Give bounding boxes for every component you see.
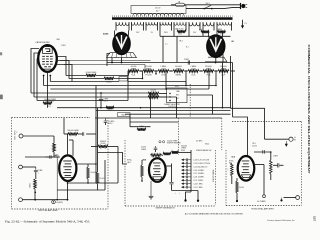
svg-text:SWEEP RANGE: SWEEP RANGE xyxy=(212,169,215,182)
wire coil drop x203 xyxy=(202,31,204,37)
svg-text:25,000: 25,000 xyxy=(100,143,105,145)
wire bus y97 xyxy=(34,96,177,98)
resistor R20 xyxy=(98,145,108,148)
wire bus y89 xyxy=(50,88,209,90)
wire to terminals xyxy=(284,197,296,199)
svg-text:COMB: COMB xyxy=(38,170,43,172)
svg-text:150,000: 150,000 xyxy=(150,90,156,92)
wire crt junction drops xyxy=(43,75,45,77)
wire CRT pin right 1 xyxy=(57,57,66,76)
transformer T1 secondary winding S5 xyxy=(174,22,186,25)
resistor R32 xyxy=(163,152,171,155)
wire bus y118 xyxy=(95,117,222,119)
fuse F1 xyxy=(176,3,185,6)
transformer T1 secondary winding S3 xyxy=(146,22,158,25)
wire sweep top xyxy=(162,154,164,156)
svg-text:R-1: R-1 xyxy=(186,47,189,49)
wire vert x232.5 xyxy=(232,63,234,118)
transformer T1 secondary winding S4 xyxy=(160,22,172,25)
resistor R25 bleeder xyxy=(188,70,199,73)
wire CRT pin left 1 xyxy=(31,49,39,94)
svg-text:COMMERCIAL OSCILLOSCOPES AND R: COMMERCIAL OSCILLOSCOPES AND RELATED EQU… xyxy=(307,45,311,174)
terminal J4 horiz input xyxy=(289,137,293,141)
resistor R2 heater xyxy=(201,30,209,33)
capacitor C17 range xyxy=(185,172,187,175)
capacitor C11 xyxy=(277,163,279,167)
wire bottom link xyxy=(172,190,199,192)
resistor R19 xyxy=(68,133,78,136)
svg-text:H. PLATE: H. PLATE xyxy=(257,200,266,203)
wire CRT pin right 3 xyxy=(56,65,72,82)
wire CRT pin right 2 xyxy=(56,61,69,79)
dashed divider x190.2 xyxy=(189,84,191,117)
wire ladder ground xyxy=(186,192,192,200)
capacitor C21 range xyxy=(185,186,187,189)
svg-text:R-26: R-26 xyxy=(207,74,211,76)
wire line cord lower xyxy=(186,7,241,8)
svg-text:+ 4 MFD: + 4 MFD xyxy=(108,121,115,123)
svg-text:C-15 450-2850 CY.: C-15 450-2850 CY. xyxy=(193,166,208,168)
label web xyxy=(118,113,131,117)
wire bus y110.5 xyxy=(96,110,231,112)
svg-text:6AE5: 6AE5 xyxy=(54,154,60,157)
small circle jack b xyxy=(163,141,165,143)
svg-text:OHMS: OHMS xyxy=(206,68,212,70)
svg-text:R-23: R-23 xyxy=(162,68,166,70)
wire pilot lamp lead xyxy=(242,20,244,26)
svg-text:R-21: R-21 xyxy=(132,74,136,76)
svg-text:ALL VOLTAGES MEASURED WITH AN: ALL VOLTAGES MEASURED WITH AN ELECTRONIC… xyxy=(185,212,244,215)
wire right link upper xyxy=(231,108,265,139)
dashed box sweep generator xyxy=(124,140,126,206)
svg-text:FOCUS: FOCUS xyxy=(145,74,152,76)
wire coil drop x160 xyxy=(159,31,161,37)
wire loop y190 xyxy=(57,189,105,191)
wire bleeder junction 0 xyxy=(139,70,143,72)
wire V4 screen feed xyxy=(72,140,74,156)
svg-text:HORIZONTAL AMPLIFIER: HORIZONTAL AMPLIFIER xyxy=(251,207,274,210)
svg-text:SYNC.: SYNC. xyxy=(127,160,133,162)
svg-text:20,000: 20,000 xyxy=(239,187,244,189)
terminal J7 xyxy=(296,196,300,200)
tube V4 6AE5 xyxy=(59,155,76,181)
wire loop vert x105 xyxy=(104,160,106,190)
resistor R12 xyxy=(104,77,114,80)
resistor R16a grid stopper xyxy=(53,143,56,152)
svg-text:C-18 .25 MFD.: C-18 .25 MFD. xyxy=(193,177,205,179)
wire row 81.5 xyxy=(50,81,119,83)
potentiometer R13 box xyxy=(119,77,128,81)
wire V1 to bus xyxy=(121,62,123,64)
transformer T1 secondary winding S6 xyxy=(189,22,200,26)
transformer T1 secondary winding S8 xyxy=(217,22,231,25)
svg-text:25,000 OHMS: 25,000 OHMS xyxy=(167,140,178,142)
dashed divider x221.8 xyxy=(221,118,223,150)
svg-text:R-25: R-25 xyxy=(192,68,196,70)
wire vert x163 xyxy=(162,36,164,62)
wire coil drop x217 xyxy=(216,31,218,37)
tube V6 electrodes xyxy=(242,160,250,163)
resistor R27 bleeder xyxy=(218,70,229,73)
dashed divider x178.5 xyxy=(178,118,180,155)
svg-text:INTENSITY: INTENSITY xyxy=(46,101,56,103)
ground sweep tube xyxy=(150,181,152,196)
svg-text:5U4G: 5U4G xyxy=(103,33,109,36)
wire tap 4 xyxy=(185,71,187,86)
svg-text:25,000: 25,000 xyxy=(100,178,105,180)
wire bleeder junction 5 xyxy=(214,70,218,72)
wire vert x150.5 xyxy=(150,93,152,118)
svg-text:2 MEG.: 2 MEG. xyxy=(30,182,32,188)
svg-text:C-14 70-450 CYCLES: C-14 70-450 CYCLES xyxy=(193,163,210,165)
svg-text:50,000: 50,000 xyxy=(91,172,96,174)
wire grid leak xyxy=(56,157,58,200)
svg-text:SWEEP SELECTOR: SWEEP SELECTOR xyxy=(164,104,180,106)
svg-text:EXT.: EXT. xyxy=(176,95,180,97)
resistor R35 xyxy=(270,160,273,174)
svg-text:SW-4: SW-4 xyxy=(122,115,126,117)
wire vert x128 xyxy=(127,71,129,101)
capacitor C12 xyxy=(262,150,264,154)
svg-text:SW-2: SW-2 xyxy=(175,86,179,88)
svg-text:VERT. INPUT: VERT. INPUT xyxy=(15,130,17,140)
dashed box vertical amplifier xyxy=(12,117,91,119)
wire row 75.5 xyxy=(66,75,86,77)
resistor R26 bleeder xyxy=(203,70,214,73)
edge speck 2 xyxy=(0,95,3,100)
svg-text:SWEEP: SWEEP xyxy=(100,141,106,143)
wire right link lower xyxy=(233,117,248,156)
svg-text:500,000 OHMS: 500,000 OHMS xyxy=(67,130,79,132)
wire bus y107.7 xyxy=(57,107,231,109)
wire V4 cathode xyxy=(67,181,69,200)
wire bleeder junction 3 xyxy=(184,70,188,72)
tube V5 884 xyxy=(149,158,166,182)
potentiometer R14 intensity xyxy=(43,102,52,105)
svg-text:6C5: 6C5 xyxy=(232,156,235,158)
svg-text:TR-1: TR-1 xyxy=(108,110,112,112)
svg-text:115 V.: 115 V. xyxy=(155,8,161,10)
svg-text:SWEEP VERNIER: SWEEP VERNIER xyxy=(167,142,181,144)
capacitor C9 top xyxy=(155,146,157,148)
wire grid bus y157 xyxy=(25,156,54,158)
capacitor C4 filter xyxy=(100,93,102,99)
svg-text:C-16 .01 MFD.: C-16 .01 MFD. xyxy=(193,170,205,172)
resistor R9 xyxy=(137,128,146,131)
tube V4 electrodes xyxy=(63,160,71,163)
svg-text:OHMS: OHMS xyxy=(146,68,152,70)
capacitor C20 range xyxy=(185,182,187,185)
svg-text:C-1: C-1 xyxy=(165,44,168,46)
svg-text:50,000: 50,000 xyxy=(141,147,146,149)
wire loop vert x118 xyxy=(117,147,119,184)
svg-text:SW-3: SW-3 xyxy=(181,150,185,152)
tube V6 6C5 xyxy=(238,156,255,181)
wire top right xyxy=(254,151,271,153)
resistor R11 xyxy=(86,74,96,77)
wire HV bus xyxy=(107,62,233,64)
wire row 78.5 xyxy=(69,78,104,80)
capacitor C7 input xyxy=(35,167,37,170)
wire bus y100.5 xyxy=(37,100,128,102)
svg-text:1 MEG: 1 MEG xyxy=(273,156,279,158)
capacitor C2 coupling xyxy=(187,60,189,64)
capacitor C19 range xyxy=(185,179,187,182)
svg-text:SW-1: SW-1 xyxy=(206,3,210,5)
wire CRT bundle a xyxy=(60,60,151,62)
switch SW1 sweep selector box xyxy=(167,88,187,103)
tube V5 electrodes xyxy=(153,162,161,165)
wire V1 leads xyxy=(114,31,116,36)
wire sync link xyxy=(98,153,128,165)
tube V1 socket xyxy=(107,53,137,58)
svg-text:557: 557 xyxy=(312,216,316,222)
wire bus y114.2 xyxy=(125,113,231,115)
svg-text:600 V.: 600 V. xyxy=(104,101,109,103)
svg-text:CONTROL: CONTROL xyxy=(168,106,176,108)
resistor R3 heater xyxy=(218,30,226,33)
wire vert x177 xyxy=(176,36,178,62)
wire CRT pin bottom xyxy=(47,72,49,101)
resistor R33 grid xyxy=(231,163,234,176)
terminal J3 xyxy=(19,198,23,202)
resistor R15 xyxy=(148,92,159,95)
rectifier tube V2 80 xyxy=(207,35,224,57)
potentiometer R17 2meg xyxy=(34,179,37,189)
resistor R31 xyxy=(151,154,162,157)
transformer T1 secondary winding S7 xyxy=(203,22,214,26)
resistor R1 heater xyxy=(177,30,186,33)
svg-text:C-17 .05 MFD.: C-17 .05 MFD. xyxy=(193,173,205,175)
rectifier tube V1 5U4G xyxy=(113,33,129,54)
resistor R34 cathode xyxy=(236,181,239,193)
svg-text:TR-3: TR-3 xyxy=(179,41,183,43)
svg-text:10 W.: 10 W. xyxy=(161,74,166,76)
wire vert x176.5 xyxy=(176,97,178,118)
plug P1 xyxy=(240,3,242,9)
wire bleeder junction 2 xyxy=(169,70,173,72)
wire V1 socket left xyxy=(107,54,110,63)
resistor R23 bleeder xyxy=(158,70,169,73)
wire anode drop xyxy=(171,164,173,183)
svg-text:OHMS: OHMS xyxy=(176,68,182,70)
capacitor C10 xyxy=(169,182,173,184)
terminal J6 xyxy=(280,199,282,201)
terminal J5 marker xyxy=(285,141,287,144)
switch SW1 line xyxy=(203,8,205,10)
svg-text:300,000: 300,000 xyxy=(181,145,187,147)
svg-text:4 MFD: 4 MFD xyxy=(104,98,110,100)
svg-text:0.1 MFD: 0.1 MFD xyxy=(196,140,203,142)
resistor R21 bleeder xyxy=(128,70,139,73)
wire line cord upper xyxy=(185,4,241,6)
wire V2 leads xyxy=(208,31,210,38)
terminal GND lug xyxy=(52,200,56,204)
svg-text:SW-4: SW-4 xyxy=(205,143,209,145)
dashed box horizontal amplifier xyxy=(225,150,227,206)
wire bleeder junction 4 xyxy=(199,70,203,72)
svg-text:OHMS: OHMS xyxy=(221,68,227,70)
wire V6 plate xyxy=(254,164,265,166)
edge speck 1 xyxy=(0,52,2,55)
svg-text:SWEEP GENERATOR: SWEEP GENERATOR xyxy=(155,206,175,209)
wire bus y85.5 xyxy=(44,85,216,87)
small circle jack a xyxy=(159,141,161,143)
wire vert x96 xyxy=(95,101,97,184)
wire CRT bundle b xyxy=(64,64,145,66)
transformer T1 secondary winding S2 xyxy=(132,22,144,25)
transformer T1 secondary winding S1 xyxy=(116,22,129,25)
resistor R24 bleeder xyxy=(173,70,184,73)
capacitor C8 xyxy=(82,132,84,136)
svg-text:2 MFD: 2 MFD xyxy=(184,59,190,61)
resistor R30 grid xyxy=(141,165,144,177)
resistor R28 divider xyxy=(106,106,114,109)
wire coil drop x189 xyxy=(188,31,190,37)
transformer T1 primary box xyxy=(131,6,186,14)
svg-text:1: 1 xyxy=(228,169,229,171)
svg-text:OHMS: OHMS xyxy=(131,68,137,70)
capacitor C14 range xyxy=(185,162,187,165)
svg-text:24,000 OHMS: 24,000 OHMS xyxy=(86,72,98,74)
capacitor C6 grid xyxy=(49,155,51,158)
resistor R16 xyxy=(148,96,159,99)
svg-text:INTEN.: INTEN. xyxy=(176,74,182,76)
wire bleeder row xyxy=(231,70,236,72)
wire tap 6 xyxy=(215,71,217,86)
svg-text:10 W.: 10 W. xyxy=(178,33,183,35)
wire bleeder junction 1 xyxy=(154,70,158,72)
wire coil drop x174 xyxy=(173,31,175,37)
wire sweep bus b xyxy=(130,126,151,128)
wire V6 cathode gnd xyxy=(236,197,238,200)
wire selector out xyxy=(187,94,213,96)
capacitor C16 range xyxy=(185,169,187,172)
svg-text:C-21 2 MFD.: C-21 2 MFD. xyxy=(193,187,203,189)
svg-text:450: 450 xyxy=(199,29,202,31)
svg-text:CATHODE RAY: CATHODE RAY xyxy=(35,41,50,44)
wire tap intensity xyxy=(155,71,157,74)
resistor R29 decoupling xyxy=(96,172,99,184)
wire sweep bus a xyxy=(130,121,179,123)
wire V4 grid feed xyxy=(67,134,69,155)
svg-text:R-25: R-25 xyxy=(192,74,196,76)
svg-text:TR-4: TR-4 xyxy=(252,143,256,145)
wire V4 plate xyxy=(76,163,96,165)
svg-text:VERTICAL AMPLIFIER: VERTICAL AMPLIFIER xyxy=(38,209,58,212)
resistor R22 bleeder xyxy=(143,70,154,73)
wire V2 drop long xyxy=(222,63,224,108)
svg-text:C-13 15-70 CYCLES: C-13 15-70 CYCLES xyxy=(193,160,210,162)
svg-text:50,000: 50,000 xyxy=(252,146,257,148)
terminal J1 vertical input xyxy=(19,134,23,138)
switch SW2 sweep range bus xyxy=(190,150,192,192)
wire tap x166 xyxy=(165,71,167,89)
capacitor C13 range xyxy=(185,158,187,161)
wire sweep feed xyxy=(64,133,68,135)
wire J1 drop xyxy=(53,136,55,143)
wire CRT pin left 2 xyxy=(34,53,39,97)
capacitor C15 range xyxy=(185,165,187,168)
wire vert x97.5 xyxy=(97,108,99,172)
svg-text:906: 906 xyxy=(57,39,60,41)
wire vert x230.5 xyxy=(230,56,232,108)
svg-text:Courtesy Supreme Publications,: Courtesy Supreme Publications, Inc. xyxy=(267,219,295,222)
transformer T1 primary winding xyxy=(133,13,184,15)
capacitor C5 filter xyxy=(105,118,107,121)
transformer T1 core xyxy=(112,17,233,20)
wire heater bus xyxy=(160,35,231,37)
wire loop y183 xyxy=(68,182,119,184)
terminal J2 vertical gnd xyxy=(19,165,23,169)
svg-text:C-19 .5 MFD.: C-19 .5 MFD. xyxy=(193,180,204,182)
capacitor C18 range xyxy=(185,176,187,179)
svg-text:600 V.: 600 V. xyxy=(108,123,113,125)
wire selector feeds xyxy=(159,93,167,95)
CRT V3 electrodes xyxy=(43,47,53,54)
wire bus y93 xyxy=(31,92,151,94)
resistor R18 plate load xyxy=(87,167,90,179)
CRT V3 xyxy=(38,45,57,72)
tube V2 socket xyxy=(205,57,227,62)
svg-text:C-20 1 MFD.: C-20 1 MFD. xyxy=(193,183,203,185)
svg-text:.1: .1 xyxy=(38,172,39,174)
